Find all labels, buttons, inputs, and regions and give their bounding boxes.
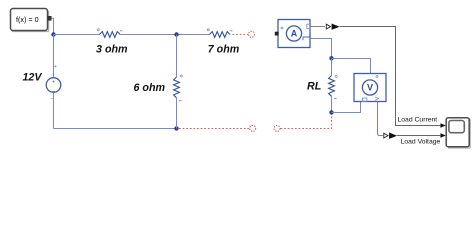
svg-text:Load Current: Load Current — [398, 117, 438, 124]
resistor RL — [307, 76, 337, 99]
node: open end marker bottom-left — [250, 125, 256, 131]
wire left rail upper — [53, 35, 55, 78]
svg-text:+: + — [54, 64, 57, 70]
svg-text:RL: RL — [307, 80, 321, 92]
svg-text:Load Voltage: Load Voltage — [401, 138, 441, 145]
node: bottom tee to 6 ohm — [174, 126, 178, 130]
wire 6 ohm branch lower — [176, 98, 178, 129]
node: solver junction — [51, 32, 55, 36]
wire ammeter to node (blue) — [310, 39, 332, 59]
node: open end marker bottom-right — [274, 125, 280, 131]
svg-text:V: V — [367, 83, 373, 93]
scope block — [446, 118, 470, 148]
node: top tee to 6 ohm — [174, 32, 178, 36]
wire left rail lower and bottom rail — [54, 92, 177, 128]
node: ammeter/RL/voltmeter junction — [329, 56, 333, 60]
wire ammeter PS output (maroon) — [310, 26, 325, 28]
wire RL branch upper — [331, 59, 333, 76]
voltage sensor (voltmeter V) — [354, 74, 386, 104]
svg-text:+: + — [52, 79, 55, 85]
svg-text:7 ohm: 7 ohm — [208, 44, 240, 56]
wire node to voltmeter + — [332, 59, 371, 74]
wire: dangling end after 7 ohm (red dashed) — [233, 34, 249, 36]
wire RL branch lower — [331, 96, 333, 112]
current sensor (ammeter A) — [275, 20, 310, 48]
wire node to voltmeter - — [332, 102, 361, 113]
wire solver to node — [52, 18, 54, 34]
wire top rail middle — [120, 34, 209, 36]
wire 6 ohm branch upper — [176, 35, 178, 78]
wire: dangling bottom rail (red dashed) — [179, 128, 249, 130]
wire: dangling line to RL bottom node (red dashed) — [281, 115, 332, 129]
node: RL bottom junction — [329, 110, 333, 114]
svg-text:12V: 12V — [22, 72, 42, 84]
signal wire Load Current — [340, 27, 441, 126]
arrowhead into scope port 2 — [440, 133, 445, 138]
PS-to-signal crossing marker top — [326, 24, 330, 29]
svg-text:6 ohm: 6 ohm — [134, 82, 166, 94]
resistor R3 6 ohm — [134, 75, 183, 101]
svg-text:3 ohm: 3 ohm — [96, 44, 128, 56]
svg-text:A: A — [291, 29, 298, 39]
svg-text:f(x) = 0: f(x) = 0 — [16, 15, 39, 24]
wire voltmeter PS output (maroon) — [378, 102, 383, 136]
signal wire Load Voltage — [397, 135, 440, 137]
resistor R1 3 ohm — [96, 29, 128, 56]
solver block f(x)=0 — [11, 9, 52, 32]
PS-to-signal crossing marker bottom — [384, 133, 388, 138]
resistor R2 7 ohm — [207, 29, 240, 56]
arrowhead into scope port 1 — [440, 123, 445, 128]
wire top rail left — [54, 34, 100, 36]
voltage source V1 12V — [22, 64, 60, 102]
node: open end marker top — [249, 31, 255, 37]
